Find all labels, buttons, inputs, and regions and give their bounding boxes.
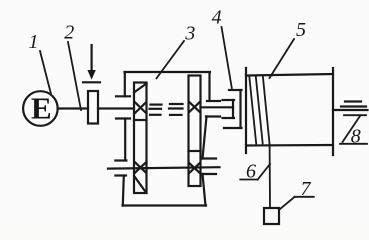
wire lower intermediate shaft	[108, 167, 220, 168]
shaft break marks group A	[150, 105, 162, 115]
drum D right wall	[332, 68, 334, 155]
bearing ticks right wall output shaft	[206, 101, 220, 117]
gear column left (gears Z1 upper, Z3 lower)	[134, 83, 147, 194]
brake arrow	[87, 45, 95, 80]
wire output shaft to coupling C4	[201, 106, 234, 108]
leader for label 4	[222, 27, 232, 88]
leader for label 5	[270, 39, 295, 78]
leader for label 1	[40, 51, 51, 94]
bearing ticks left wall lower shaft	[115, 161, 126, 176]
wire shaft coupling to gearbox	[98, 107, 134, 109]
gearbox housing right wall	[203, 72, 210, 206]
svg-text:4: 4	[212, 7, 222, 29]
wire shaft motor to coupling	[58, 107, 88, 109]
svg-text:8: 8	[351, 126, 361, 148]
load square W	[264, 208, 279, 224]
gear column right (gears Z2 upper, Z4 lower)	[189, 76, 201, 187]
svg-text:3: 3	[184, 22, 195, 44]
X mark gear Z1 on input shaft	[135, 102, 146, 113]
svg-text:E: E	[31, 91, 52, 126]
gearbox housing top	[125, 71, 211, 73]
drum output shaft stub	[333, 109, 368, 111]
drum D left wall	[245, 68, 247, 153]
X mark gear Z2 on output shaft	[189, 102, 200, 112]
gearbox housing bottom	[123, 204, 207, 206]
drum D top	[246, 74, 333, 76]
coupling C2 (brake drum)	[88, 91, 98, 124]
svg-text:5: 5	[296, 19, 306, 41]
drum D bottom	[246, 144, 333, 147]
label 8 with reference line	[340, 115, 367, 144]
svg-text:1: 1	[29, 31, 39, 53]
brake pad bar	[83, 81, 100, 83]
X mark gear Z4 on lower shaft	[189, 163, 200, 173]
bearing 8 support lines	[341, 102, 366, 107]
rope cable down	[269, 145, 271, 209]
motor M1 circle	[23, 91, 58, 126]
X mark gear Z3 on lower shaft	[135, 162, 146, 172]
bearing ticks left wall input shaft	[116, 96, 130, 118]
leader for label 3	[157, 41, 185, 78]
rope coils on drum	[249, 76, 269, 145]
coupling C4 flange A	[223, 100, 235, 118]
leader for label 2	[68, 42, 81, 110]
gearbox housing left wall	[123, 72, 125, 206]
shaft break marks group B	[169, 104, 183, 115]
svg-text:2: 2	[64, 22, 74, 44]
bearing ticks right wall lower shaft	[202, 159, 216, 175]
coupling C4 flange B	[224, 90, 242, 128]
